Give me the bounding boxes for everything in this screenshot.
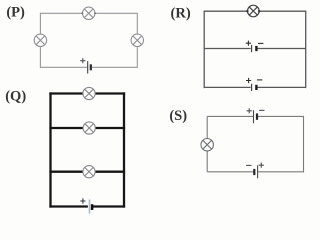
wire Q rung 1 — [49, 127, 125, 129]
wire R top edge — [204, 10, 306, 12]
wire Q top edge — [49, 92, 125, 94]
battery R middle cell — [252, 45, 257, 52]
battery S top plus sign — [247, 108, 252, 113]
wire R left rail — [203, 11, 205, 89]
svg-text:(R): (R) — [171, 6, 191, 22]
wire P top-right segment — [95, 13, 137, 34]
battery P cell — [88, 61, 91, 73]
label (R) — [171, 6, 191, 22]
lamp P right — [131, 34, 143, 46]
lamp R — [246, 5, 260, 17]
label (Q) — [5, 89, 26, 105]
wire S top edge — [207, 115, 303, 117]
wire S left rail upper segment — [206, 116, 208, 138]
battery R middle minus sign — [258, 42, 263, 44]
svg-text:(S): (S) — [169, 108, 187, 124]
wire Q right rail — [123, 92, 125, 207]
label (P) — [6, 4, 25, 20]
svg-text:(Q): (Q) — [5, 89, 26, 105]
battery S bottom minus sign — [246, 164, 251, 166]
wire S right rail — [303, 116, 305, 172]
battery R middle plus sign — [246, 41, 251, 46]
lamp Q bottom — [83, 166, 95, 178]
wire P bottom-right segment — [91, 47, 137, 68]
battery R bottom minus sign — [257, 79, 262, 81]
wire S left rail lower segment — [206, 151, 208, 172]
battery R bottom cell — [252, 84, 257, 91]
battery S bottom cell — [254, 165, 257, 178]
lamp S — [201, 139, 213, 151]
battery P plus sign — [80, 58, 85, 63]
battery R bottom plus sign — [246, 78, 251, 83]
wire P bottom-left segment — [40, 47, 87, 68]
wire Q left rail — [49, 92, 51, 207]
battery S top cell — [254, 110, 258, 123]
battery Q plus sign — [80, 198, 85, 203]
wire Q rung 2 — [49, 171, 125, 173]
wire R right rail — [305, 11, 307, 89]
wire P top-left segment — [40, 13, 82, 34]
battery S bottom plus sign — [259, 163, 264, 168]
battery S top minus sign — [259, 109, 264, 111]
lamp Q middle — [83, 122, 95, 134]
wire R bottom edge — [204, 86, 306, 88]
wire R middle branch — [204, 48, 306, 50]
lamp P left — [34, 34, 46, 46]
label (S) — [169, 108, 187, 124]
wire S bottom edge — [207, 171, 303, 173]
lamp P top — [81, 7, 96, 19]
wire Q bottom edge — [49, 205, 125, 207]
lamp Q top — [83, 87, 95, 99]
svg-text:(P): (P) — [6, 4, 25, 20]
battery Q cell — [90, 200, 93, 214]
